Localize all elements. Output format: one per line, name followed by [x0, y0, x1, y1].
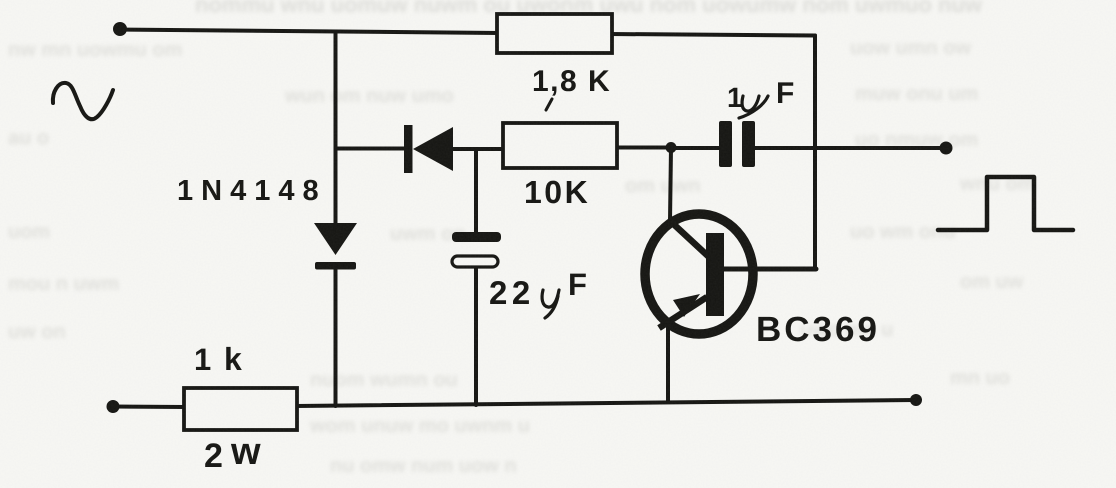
- wire right vertical: top corner down to collector corner: [813, 36, 817, 269]
- wire 1N4148 cathode to bottom wire: [334, 266, 338, 406]
- wire tap down to 22uF: [474, 149, 478, 233]
- resistor R3 1k (box): [184, 388, 297, 430]
- label 22uF mu glyph: [542, 290, 559, 318]
- label 1uF mu glyph: [739, 96, 768, 118]
- wire middle: 1uF right plate to output dot: [755, 146, 946, 150]
- node OUT (output terminal dot): [940, 142, 953, 155]
- resistor R1 1,8K (box): [497, 14, 612, 53]
- wire collector horizontal: corner to transistor: [724, 267, 816, 272]
- wire top: 1.8K right to top-right corner: [610, 34, 815, 36]
- capacitor C2 1uF plates: [719, 121, 755, 167]
- wire base: node B down to transistor: [670, 148, 671, 221]
- wire left vertical branch: top wire down to diode D1: [334, 32, 338, 226]
- node GND-R (bottom-right terminal dot): [910, 394, 922, 406]
- wire 22uF bottom to bottom wire: [474, 266, 478, 405]
- diode D2 horizontal (arrow left): [404, 125, 453, 173]
- wire top: input dot to 1.8K left: [119, 30, 499, 34]
- transistor Q1 BC369: [645, 214, 753, 334]
- wire middle: node B to 1uF left plate: [671, 146, 719, 150]
- capacitor C1 22uF (polarized plates): [452, 232, 501, 267]
- wire bottom: left dot to 1k resistor: [113, 405, 185, 410]
- resistor R2 10K (box): [503, 123, 617, 168]
- wire middle: 10K right to node B: [616, 146, 671, 150]
- node B junction dot: [666, 142, 677, 153]
- square-wave output symbol: [938, 177, 1073, 230]
- wire emitter: transistor bottom to bottom wire: [666, 326, 670, 402]
- wire bottom: 1k to right end: [296, 400, 916, 406]
- wire middle: branch to diode D2: [336, 147, 406, 151]
- node GND-L (bottom-left terminal dot): [107, 400, 120, 413]
- wire middle: D2 to 10K (with tap): [452, 147, 504, 151]
- diode D1 1N4148 vertical (arrow down): [314, 223, 357, 270]
- label comma slash of 1,8K: [546, 99, 552, 110]
- node IN (input terminal dot): [113, 22, 127, 36]
- sine-wave input symbol: [53, 83, 113, 119]
